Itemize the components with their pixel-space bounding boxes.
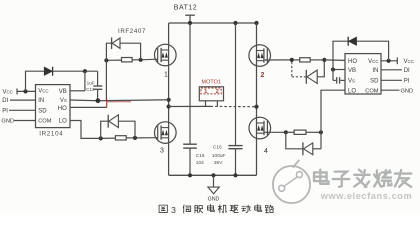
wire Q3 gate line bbox=[101, 137, 116, 139]
resistor R2 (Q2 gate) bbox=[300, 58, 311, 62]
svg-text:C15: C15 bbox=[196, 153, 205, 159]
wire Q2 gate line bbox=[265, 59, 292, 61]
svg-text:SD: SD bbox=[38, 108, 47, 114]
svg-text:COM: COM bbox=[38, 119, 52, 125]
svg-text:BAT12: BAT12 bbox=[174, 5, 197, 12]
motor MOTO1 box bbox=[199, 87, 223, 101]
capacitor C13 bootstrap right bbox=[332, 70, 334, 81]
node Q3 gate left bbox=[99, 136, 103, 140]
wire top rail bbox=[169, 22, 257, 24]
svg-text:PI: PI bbox=[2, 108, 8, 114]
wire U1 LO to Q3 gate network bbox=[70, 121, 101, 139]
svg-text:www.elecfans.com: www.elecfans.com bbox=[320, 191, 412, 201]
wire DI to U1 IN bbox=[10, 99, 36, 101]
wire D4 loop bbox=[286, 132, 303, 149]
red annotation vertical at HO bbox=[106, 99, 108, 108]
svg-text:2: 2 bbox=[216, 89, 219, 95]
junction VB node bbox=[83, 69, 87, 73]
wire U2 VB stub bbox=[333, 69, 345, 71]
junction rail-C15 bbox=[188, 21, 192, 25]
svg-text:2: 2 bbox=[261, 72, 265, 79]
svg-text:3: 3 bbox=[160, 148, 164, 155]
transistor Q4 (low side right) bbox=[249, 117, 271, 139]
wire D2 loop (dashed left) bbox=[291, 62, 293, 77]
wire GND to U1 COM bbox=[14, 120, 36, 122]
node Q3 gate right bbox=[133, 136, 137, 140]
svg-text:MOTO1: MOTO1 bbox=[202, 79, 222, 85]
svg-text:104: 104 bbox=[196, 160, 204, 166]
wire U2 Vcc pin to terminal bbox=[381, 60, 397, 62]
svg-text:3: 3 bbox=[171, 205, 176, 215]
svg-text:LO: LO bbox=[348, 88, 356, 94]
junction C12/Vs bbox=[96, 98, 101, 103]
diode D3 (Q3 gate speedup) bbox=[109, 115, 119, 128]
junction C16-gnd bbox=[233, 173, 237, 177]
svg-text:VB: VB bbox=[59, 89, 67, 95]
wire bootstrap loop right IC bbox=[333, 41, 389, 69]
svg-text:IR2104: IR2104 bbox=[39, 130, 63, 137]
junction gnd stub bbox=[211, 173, 215, 177]
caption: 图 3 伺服电机驱动电路 bbox=[159, 205, 167, 212]
node Q2 gate right bbox=[322, 58, 326, 62]
transistor Q2 (high side right) bbox=[249, 45, 271, 67]
wire PI to U1 SD bbox=[9, 109, 36, 111]
wire Q4 gate line bbox=[265, 131, 286, 133]
svg-text:IRF2407: IRF2407 bbox=[118, 28, 146, 35]
svg-text:DI: DI bbox=[404, 68, 410, 74]
node Vcc input, bracket bbox=[16, 88, 18, 94]
svg-text:1uF: 1uF bbox=[87, 81, 95, 86]
wire U1 Vs to bridge midpoint bbox=[70, 99, 169, 102]
svg-text:HO: HO bbox=[58, 106, 67, 112]
junction Vcc bootstrap tap bbox=[23, 89, 27, 93]
wire right bridge vertical (Q2 drain to Q4 source) bbox=[256, 23, 258, 175]
op-amp U2 gate driver box bbox=[345, 54, 381, 94]
wire DI right bbox=[381, 69, 402, 71]
wire U1 HO stub bbox=[70, 106, 107, 108]
capacitor C16 (100uF 35V) bbox=[235, 23, 237, 146]
wire motor terminal 2 stub bbox=[216, 101, 218, 107]
node A: Q1 source / Vs junction bbox=[167, 98, 171, 102]
watermark logo circle bbox=[273, 166, 310, 203]
wire D4 loop right vertical bbox=[320, 132, 322, 149]
svg-text:1: 1 bbox=[164, 72, 168, 79]
svg-text:GND: GND bbox=[208, 196, 220, 202]
wire motor line dashed part bbox=[211, 105, 254, 107]
svg-text:C12: C12 bbox=[86, 87, 95, 92]
svg-text:DI: DI bbox=[2, 98, 8, 104]
svg-text:IN: IN bbox=[373, 68, 379, 74]
diode D2 (Q2 gate speedup) bbox=[307, 70, 317, 83]
resistor R4 (Q4 gate) bbox=[294, 130, 306, 134]
power terminal BAT12 bar bbox=[185, 14, 195, 16]
watermark text 电子发烧友 bbox=[315, 171, 330, 185]
node Vcc right bracket bbox=[396, 57, 398, 64]
wire U2 LO to Q4 gate network bbox=[321, 90, 345, 132]
svg-text:C16: C16 bbox=[213, 145, 222, 151]
capacitor C12 bootstrap (1uF) bbox=[97, 71, 99, 86]
capacitor C15 (104) bbox=[189, 23, 191, 144]
svg-text:COM: COM bbox=[365, 88, 379, 94]
diode D6 bootstrap right bbox=[348, 37, 356, 46]
wire snubber left node down to Vs line bbox=[105, 60, 107, 100]
junction VB right bbox=[331, 67, 335, 71]
svg-text:HO: HO bbox=[348, 59, 357, 65]
wire VB node down to U1 VB pin bbox=[84, 71, 86, 91]
wire left bridge vertical (Q1 drain to Q3 source) bbox=[168, 23, 170, 175]
wire bottom ground rail bbox=[169, 174, 257, 176]
wire D1 loop bbox=[106, 43, 111, 60]
svg-text:35V: 35V bbox=[214, 160, 223, 166]
wire PI right bbox=[381, 79, 402, 81]
node C: motor line junction right bbox=[254, 105, 258, 109]
red annotation along Vs line bbox=[107, 101, 131, 103]
svg-text:1: 1 bbox=[204, 89, 207, 95]
junction rail right end bbox=[254, 21, 258, 25]
junction C15-gnd bbox=[188, 173, 192, 177]
diode D4 (Q4 gate speedup) bbox=[304, 143, 313, 155]
svg-text:SD: SD bbox=[370, 79, 379, 85]
wire motor terminal 1 stub bbox=[205, 101, 207, 107]
junction Vcc right bbox=[387, 59, 391, 63]
wire U2 HO to Q2 gate bbox=[324, 59, 345, 62]
ground symbol bbox=[213, 175, 215, 187]
svg-text:IN: IN bbox=[38, 98, 44, 104]
red dashed box motor terminals bbox=[201, 88, 221, 94]
node Q4 gate left bbox=[284, 130, 288, 134]
resistor R3 (Q3 gate) bbox=[115, 136, 126, 140]
node B: motor line junction left bbox=[167, 104, 171, 108]
node Q1 gate right bbox=[139, 58, 143, 62]
op-amp U1 gate driver IR2104 box bbox=[36, 85, 71, 128]
svg-text:100uF: 100uF bbox=[212, 153, 226, 159]
wire Vcc up to bootstrap diode bbox=[26, 71, 45, 91]
transistor Q3 (low side left) bbox=[155, 122, 177, 144]
node Q2 gate left bbox=[290, 58, 294, 62]
wire D2 loop right bbox=[317, 62, 324, 77]
svg-text:GND: GND bbox=[401, 88, 414, 94]
diode D5 bootstrap left bbox=[44, 67, 52, 75]
wire D3 loop bbox=[101, 121, 109, 138]
diode D1 (Q1 gate speedup) bbox=[112, 38, 120, 48]
svg-text:4: 4 bbox=[264, 148, 268, 155]
junction rail-C16 bbox=[233, 21, 237, 25]
node Q4 gate right bbox=[319, 130, 323, 134]
svg-text:PI: PI bbox=[404, 79, 410, 85]
wire Q1 gate line bbox=[106, 59, 121, 61]
svg-text:GND: GND bbox=[1, 119, 14, 125]
transistor Q1 IRF2407 (high side left) bbox=[155, 44, 177, 66]
resistor R1 (Q1 gate) bbox=[122, 58, 133, 62]
node Q1 gate left bbox=[104, 58, 108, 62]
wire GND right bbox=[381, 89, 400, 91]
svg-text:LO: LO bbox=[59, 119, 67, 125]
svg-text:VB: VB bbox=[348, 68, 356, 74]
wire Vcc to U1 bbox=[17, 90, 36, 92]
wire bootstrap diode to VB / cap bbox=[53, 70, 98, 72]
wire motor line solid part bbox=[169, 105, 211, 107]
